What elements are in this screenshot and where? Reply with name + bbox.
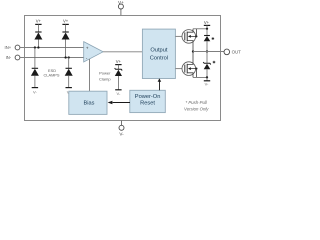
svg-text:Bias: Bias xyxy=(84,101,95,107)
block Output Control xyxy=(142,29,175,78)
svg-text:V-: V- xyxy=(205,81,209,86)
svg-text:Control: Control xyxy=(150,56,168,62)
svg-text:Version Only: Version Only xyxy=(184,106,209,111)
V- symbol (output stage) xyxy=(204,77,210,86)
transistor Q2 (bottom NMOS) xyxy=(182,52,197,78)
block Power-On Reset xyxy=(130,90,166,112)
wire IN+ to comparator xyxy=(20,47,84,49)
node OUT line xyxy=(192,50,194,52)
svg-text:CLAMPS: CLAMPS xyxy=(44,73,60,78)
svg-text:V+: V+ xyxy=(36,18,42,23)
block Bias xyxy=(69,91,107,114)
V+ symbol (output stage) xyxy=(204,20,210,30)
wire IN- to comparator xyxy=(20,57,84,59)
svg-text:Clamp: Clamp xyxy=(99,76,111,81)
IC outer boundary box xyxy=(25,16,221,121)
svg-text:* Push-Pull: * Push-Pull xyxy=(186,100,208,105)
svg-text:V-: V- xyxy=(117,91,121,96)
svg-text:OUT: OUT xyxy=(232,50,242,55)
pin V+ (top) xyxy=(118,4,123,15)
svg-text:V-: V- xyxy=(119,131,124,136)
svg-text:V+: V+ xyxy=(116,59,122,64)
svg-text:Power-On: Power-On xyxy=(135,94,161,100)
wire Q2 source to V- node xyxy=(193,76,207,78)
ESD clamp diode D4 (V- to IN-) x=68.7 xyxy=(65,56,73,94)
wire Power-On Reset to Bias (arrow left) xyxy=(113,102,130,104)
svg-text:IN+: IN+ xyxy=(5,45,12,50)
comparator U1 xyxy=(84,42,103,62)
svg-text:Power: Power xyxy=(99,70,111,75)
svg-text:Output: Output xyxy=(150,48,167,54)
wire Q1 to V+ node xyxy=(193,28,207,30)
wire Output Control to Q2 gate xyxy=(175,68,184,70)
pin OUT xyxy=(224,49,230,55)
transistor Q1 (top PMOS) xyxy=(182,29,197,52)
zener D6 (V- to OUT) xyxy=(203,52,215,79)
power clamp zener Z1 xyxy=(115,59,123,96)
svg-text:V+: V+ xyxy=(204,20,210,25)
diode D5 (OUT to V+) xyxy=(204,29,214,53)
ESD clamp diode D3 (IN- to V+) x=65.6 xyxy=(62,18,70,58)
wire Output Control to Q1 gate xyxy=(175,35,184,37)
wire Power-On Reset to Output Control (arrow up) xyxy=(159,81,161,90)
ESD clamp diode D1 (IN+ to V+) x=38.4 xyxy=(34,18,42,48)
wire comparator output to Output Control xyxy=(103,51,142,53)
svg-text:+: + xyxy=(86,46,89,51)
pin V- (bottom) xyxy=(119,121,124,131)
svg-text:Reset: Reset xyxy=(140,100,155,106)
wire comparator to Bias xyxy=(89,59,91,91)
ESD clamp diode D2 (V- to IN+) x=34.9 xyxy=(31,46,39,94)
svg-text:IN-: IN- xyxy=(6,55,12,60)
svg-text:V+: V+ xyxy=(118,0,124,5)
svg-text:V-: V- xyxy=(33,90,37,95)
svg-text:V+: V+ xyxy=(63,18,69,23)
